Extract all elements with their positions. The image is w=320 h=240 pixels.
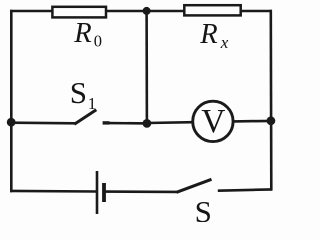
svg-text:R: R [199,19,217,50]
svg-text:S: S [70,75,87,110]
label S [195,194,212,229]
battery [97,171,104,214]
wire middle-center [108,122,148,125]
node center junction [143,119,152,128]
resistor Rx [184,5,240,15]
svg-text:S: S [195,194,212,222]
node top junction [143,7,151,15]
switch S [177,179,212,192]
switch S1 [74,110,109,124]
wire right [269,10,272,191]
wire middle vertical [145,10,148,124]
svg-text:1: 1 [88,94,97,113]
label Rx [199,19,229,52]
wire bottom-middle [104,190,178,193]
label S1 [70,75,97,113]
wire middle-left [11,121,75,124]
wire middle-right1 [147,121,193,124]
node right junction [267,116,276,125]
wire top [10,10,272,13]
wire bottom-left [10,190,97,193]
svg-text:R: R [73,18,91,49]
wire middle-right2 [234,120,272,123]
svg-text:0: 0 [94,32,102,51]
svg-text:V: V [201,103,225,140]
voltmeter V [193,101,233,141]
label R0 [73,18,102,51]
wire left [10,10,13,193]
node left junction [7,118,16,127]
resistor R0 [52,7,106,18]
svg-text:x: x [220,33,229,52]
wire bottom-right [218,189,272,190]
